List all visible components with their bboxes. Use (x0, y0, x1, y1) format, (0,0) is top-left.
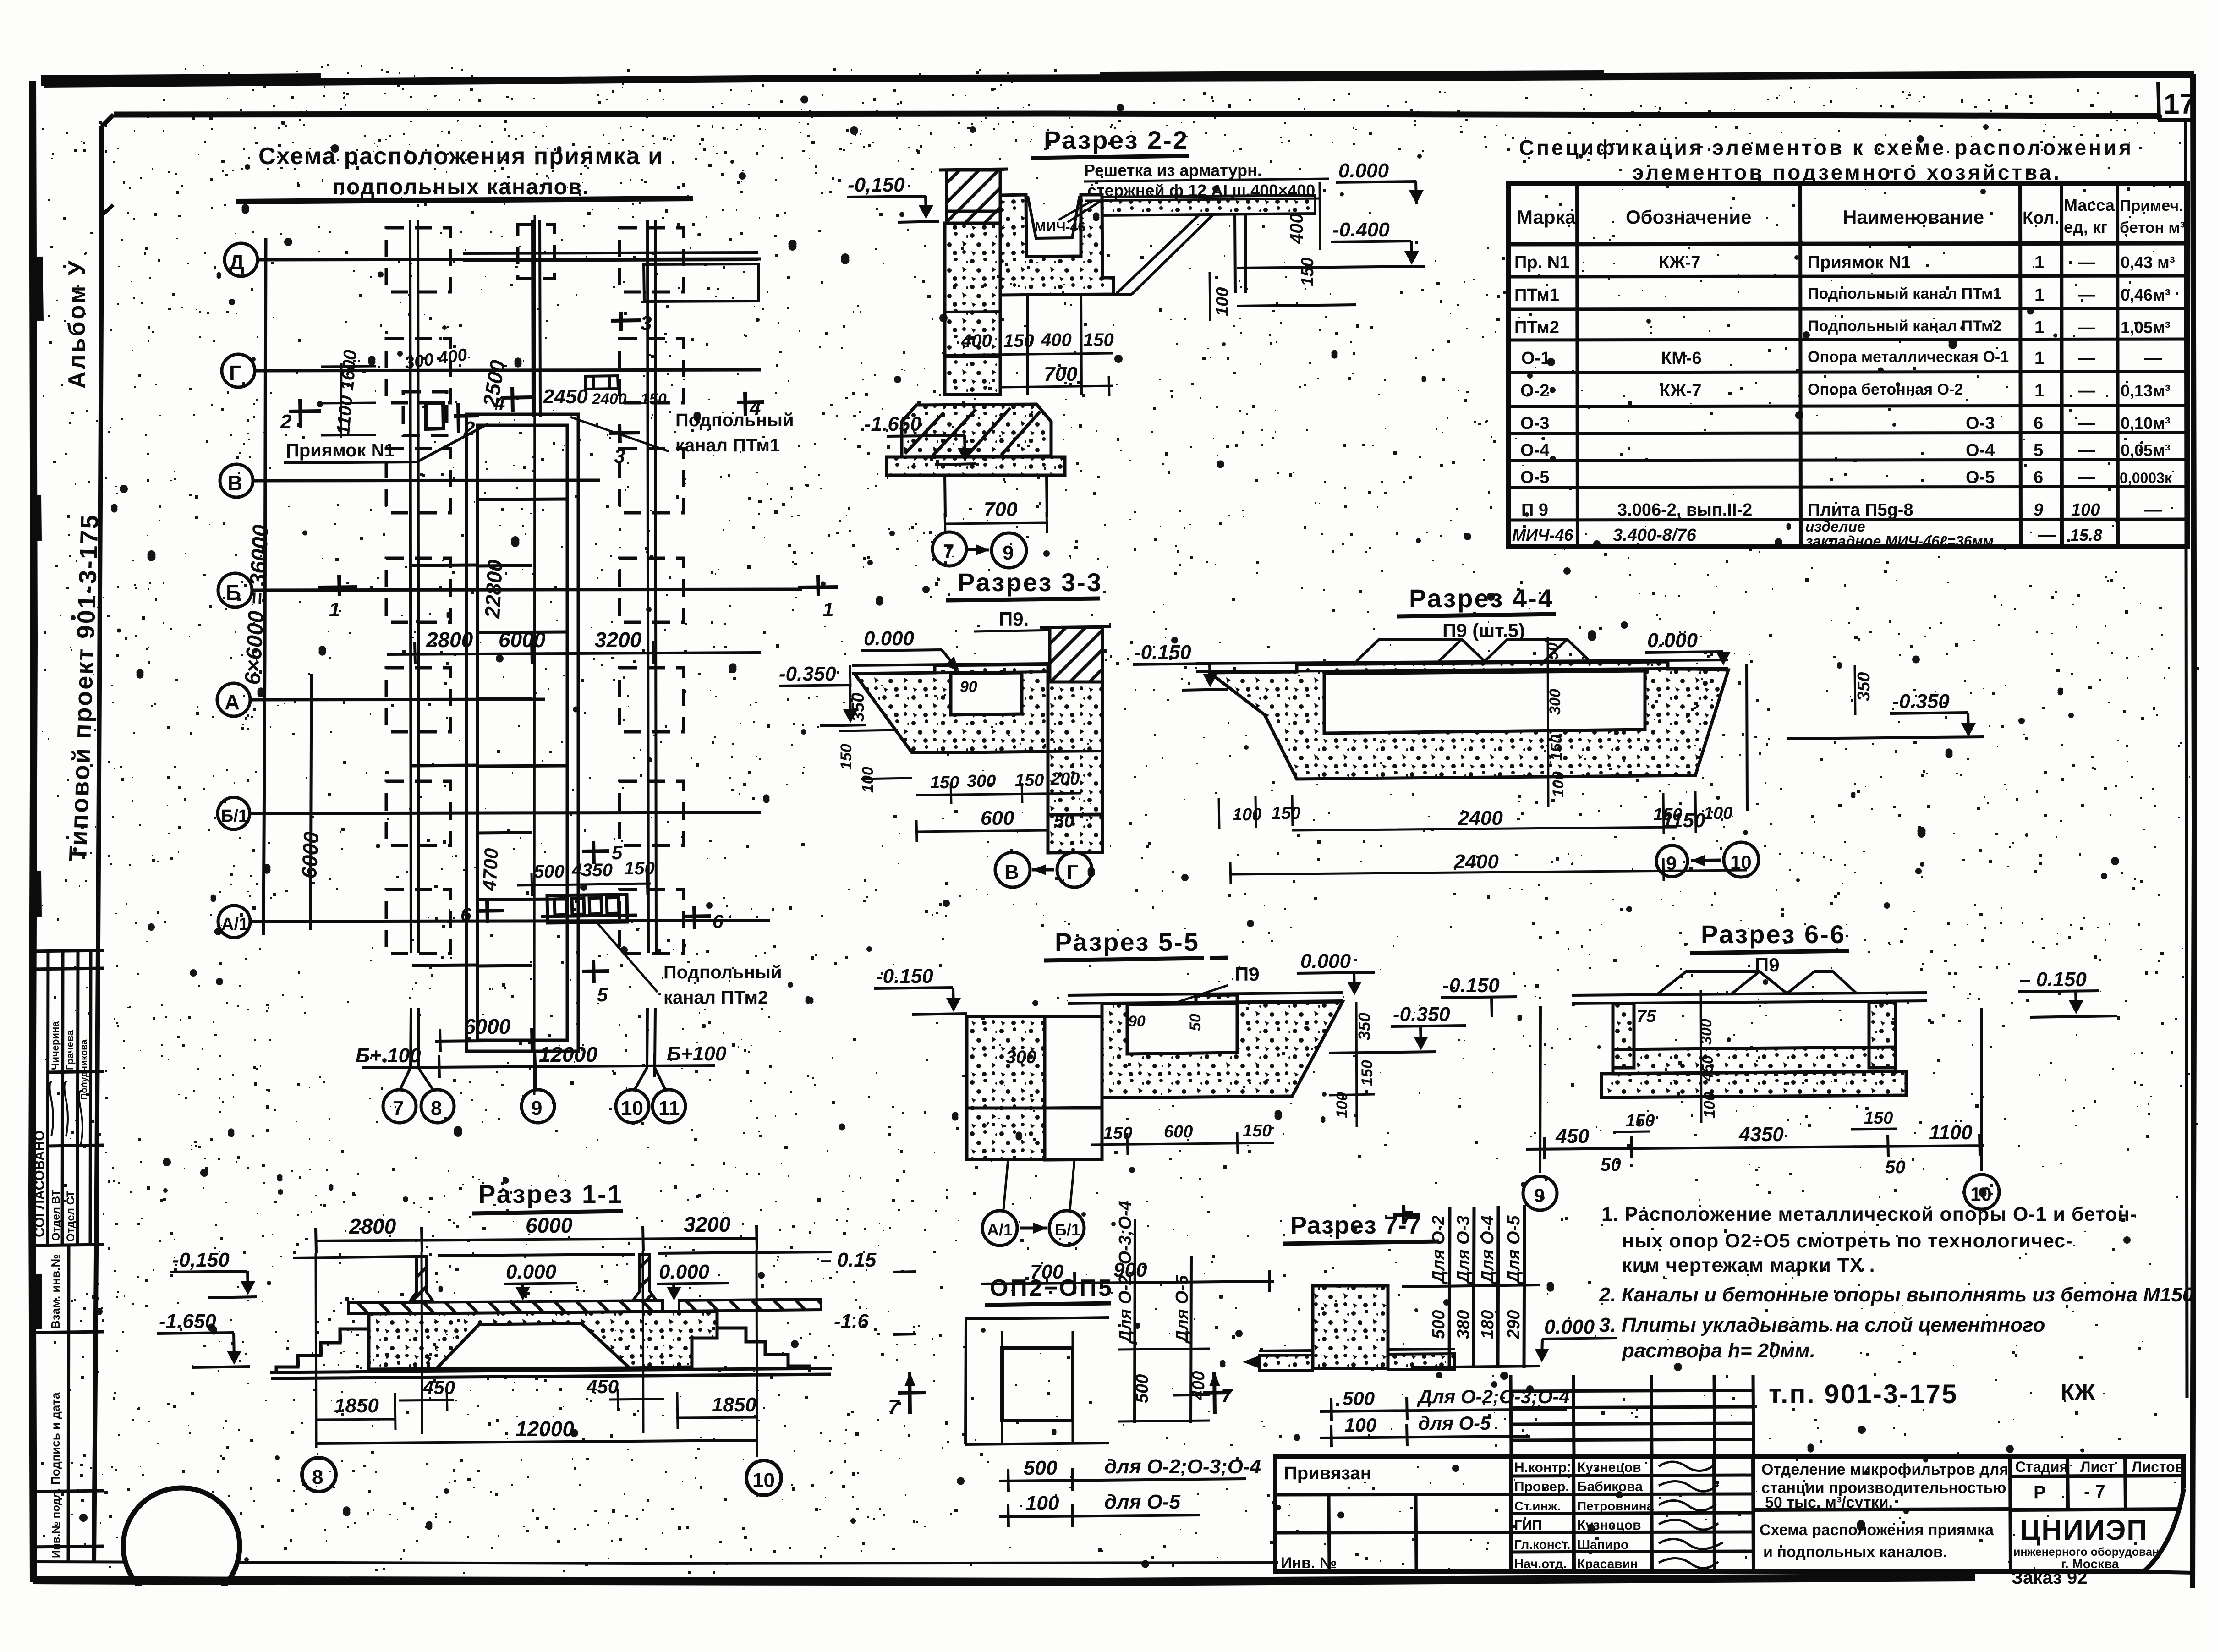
svg-text:—: — (2078, 468, 2095, 487)
svg-text:150: 150 (1015, 771, 1044, 790)
svg-text:—: — (2078, 441, 2095, 460)
svg-text:4350: 4350 (1738, 1123, 1784, 1146)
svg-text:0.000: 0.000 (1300, 950, 1351, 972)
svg-text:—: — (2078, 381, 2095, 401)
svg-text:6000: 6000 (464, 1015, 511, 1038)
svg-text:Подпольный: Подпольный (675, 410, 794, 430)
svg-text:150: 150 (930, 773, 959, 792)
grid ref circle 8 (302, 1458, 336, 1492)
svg-text:1100: 1100 (1929, 1121, 1973, 1144)
section mark 2 left (289, 399, 321, 428)
svg-text:180: 180 (1478, 1310, 1497, 1339)
svg-text:9: 9 (531, 1097, 542, 1120)
channel concrete U with left slope (855, 664, 1048, 752)
svg-text:90: 90 (960, 678, 977, 696)
svg-text:ед, кг: ед, кг (2064, 218, 2108, 236)
svg-text:500: 500 (1133, 1374, 1152, 1403)
svg-text:2400: 2400 (1453, 851, 1499, 873)
svg-text:-1.6: -1.6 (834, 1310, 869, 1333)
right vertical line (1747, 664, 1747, 811)
svg-text:6: 6 (2034, 468, 2043, 487)
svg-text:раствора h= 20мм.: раствора h= 20мм. (1622, 1339, 1815, 1362)
table grid (1508, 183, 2187, 547)
svg-text:-0.350: -0.350 (779, 663, 836, 685)
svg-text:1850: 1850 (334, 1394, 379, 1417)
stamp circle bottom left (123, 1488, 240, 1604)
svg-text:150: 150 (641, 390, 667, 408)
title underline (236, 198, 693, 202)
grid ref circle 10 (1964, 1175, 1999, 1209)
svg-text:150: 150 (1003, 331, 1034, 351)
svg-text:Решетка из арматурн.: Решетка из арматурн. (1084, 161, 1262, 180)
sidebar agreement table (30, 950, 104, 1562)
svg-text:100: 100 (2071, 500, 2100, 520)
svg-text:закладное МИЧ-46ℓ=36мм: закладное МИЧ-46ℓ=36мм (1805, 533, 1994, 549)
svg-text:150: 150 (838, 744, 855, 770)
svg-text:300: 300 (1006, 1047, 1036, 1067)
grid ref circle 10 (746, 1460, 781, 1495)
column at А left (386, 668, 450, 732)
svg-text:50: 50 (1885, 1157, 1906, 1177)
svg-text:-1.650: -1.650 (159, 1310, 216, 1333)
svg-text:7: 7 (888, 1396, 900, 1418)
grid ref circle Г (1057, 852, 1092, 887)
svg-text:Б/1: Б/1 (1055, 1220, 1080, 1239)
svg-text:1: 1 (329, 598, 340, 621)
svg-text:150: 150 (1359, 1060, 1376, 1086)
svg-text:10: 10 (752, 1469, 775, 1492)
svg-text:ОП2÷ОП5: ОП2÷ОП5 (990, 1275, 1113, 1301)
svg-text:изделие: изделие (1805, 518, 1865, 535)
svg-text:КЖ: КЖ (2061, 1379, 2096, 1405)
svg-text:Подпольный канал ПТм1: Подпольный канал ПТм1 (1808, 285, 2001, 302)
grid ref circle А/1 (982, 1211, 1017, 1246)
foundation base slab (887, 457, 1065, 475)
arrow between 9 and 10 (1691, 860, 1721, 861)
svg-text:8: 8 (431, 1097, 442, 1120)
bottom grid circle 11 (652, 1090, 685, 1123)
svg-text:т.п. 901-3-175: т.п. 901-3-175 (1769, 1379, 1958, 1409)
svg-text:7: 7 (1401, 1207, 1414, 1229)
grid circle Г (222, 354, 255, 387)
column at Б left (386, 558, 450, 622)
svg-text:О-5: О-5 (1520, 468, 1549, 487)
svg-text:3200: 3200 (595, 628, 642, 652)
arrow between 7 and 9 (968, 549, 989, 550)
page curl corner bottom right (2144, 1488, 2187, 1589)
channel concrete (1102, 995, 1343, 1098)
svg-text:О-3: О-3 (1966, 414, 1995, 433)
grid ref circle 9 (1656, 845, 1688, 877)
column at Д left (386, 228, 450, 292)
svg-text:О-1: О-1 (1521, 349, 1550, 368)
svg-text:50: 50 (1601, 1155, 1621, 1175)
svg-text:О-3: О-3 (1520, 414, 1549, 433)
grid circle В (220, 464, 253, 497)
main title block frame (1275, 1457, 2183, 1571)
svg-text:—: — (2078, 318, 2095, 337)
svg-text:0.000: 0.000 (864, 627, 915, 650)
svg-text:Подпольный канал ПТм2: Подпольный канал ПТм2 (1808, 318, 2001, 335)
column at Б/1 right (619, 781, 684, 845)
svg-text:450: 450 (1555, 1125, 1590, 1147)
dim line 6000 between Б/1 and А/1 (311, 674, 312, 930)
svg-text:Г: Г (1067, 861, 1078, 884)
tick line bottom (1411, 1366, 1540, 1367)
grid circle Б (218, 573, 252, 607)
svg-text:—: — (2144, 349, 2162, 368)
central tank outline (412, 215, 578, 1095)
svg-text:—: — (2078, 285, 2095, 305)
svg-text:Заказ 92: Заказ 92 (2012, 1568, 2088, 1588)
svg-text:П 9: П 9 (1521, 500, 1548, 520)
page number box lines (2158, 82, 2159, 120)
svg-text:Б: Б (226, 581, 241, 604)
arrow between В and Г (1032, 868, 1054, 872)
dim vertical lines for 7-7 (1449, 1205, 1524, 1368)
dim bracket bottom (965, 1443, 1109, 1444)
svg-text:7: 7 (943, 540, 954, 563)
signature squiggles (1659, 1462, 1723, 1568)
svg-text:-0.150: -0.150 (1442, 974, 1500, 997)
svg-text:Разрез 2-2: Разрез 2-2 (1044, 126, 1189, 154)
bottom grid circle 7 (383, 1090, 416, 1123)
svg-text:500: 500 (1343, 1388, 1375, 1409)
приямок N1 small rect (426, 403, 444, 429)
svg-text:6: 6 (2034, 414, 2043, 433)
svg-text:150: 150 (1864, 1109, 1893, 1128)
svg-text:9: 9 (1534, 1185, 1545, 1206)
svg-text:Инв. №: Инв. № (1281, 1554, 1337, 1572)
channel inner white (1127, 1004, 1237, 1054)
svg-text:22800: 22800 (480, 559, 507, 620)
svg-text:700: 700 (984, 498, 1018, 521)
svg-text:8: 8 (312, 1466, 323, 1488)
svg-text:Кол.: Кол. (2023, 209, 2059, 228)
svg-text:Гл.конст.: Гл.конст. (1514, 1537, 1570, 1552)
svg-text:0,05м³: 0,05м³ (2121, 441, 2171, 460)
section mark 7 right (1203, 1372, 1230, 1414)
grid axis line А/1 (250, 921, 770, 922)
floor slab left (1259, 1355, 1313, 1371)
slab top line (1068, 993, 1343, 1004)
svg-text:-0.150: -0.150 (1134, 641, 1191, 664)
svg-text:О-5: О-5 (1966, 468, 1995, 487)
svg-text:1. Расположение металличес: 1. Расположение металлической опоры О-1 … (1601, 1203, 2137, 1225)
section mark 4 right (737, 392, 764, 416)
svg-text:Приямок N1: Приямок N1 (1808, 253, 1911, 272)
svg-text:9: 9 (2034, 500, 2043, 520)
svg-text:МИЧ-46: МИЧ-46 (1512, 526, 1573, 544)
svg-text:—: — (2078, 414, 2095, 433)
svg-text:Лист: Лист (2080, 1459, 2115, 1475)
svg-text:1: 1 (2034, 285, 2044, 305)
column at В left (386, 449, 450, 513)
svg-text:ГИП: ГИП (1514, 1518, 1542, 1533)
svg-text:9: 9 (1003, 542, 1014, 564)
svg-text:2400: 2400 (592, 390, 627, 408)
svg-text:0,43 м³: 0,43 м³ (2121, 253, 2175, 272)
svg-text:Б+100: Б+100 (667, 1043, 727, 1065)
pit U concrete (1000, 195, 1113, 295)
svg-text:7: 7 (393, 1097, 404, 1120)
vertical dimension line 6x6000 (263, 238, 266, 935)
svg-text:Подпись и дата: Подпись и дата (49, 1392, 62, 1485)
svg-text:300: 300 (967, 772, 996, 791)
svg-text:400: 400 (961, 331, 992, 351)
top right small rectangle (644, 264, 759, 302)
svg-text:ким чертежам марки ТХ: ким чертежам марки ТХ . (1622, 1254, 1875, 1276)
svg-text:500: 500 (1429, 1310, 1448, 1339)
svg-text:– 0.150: – 0.150 (2019, 968, 2087, 991)
svg-text:6000: 6000 (499, 628, 546, 652)
svg-text:А: А (225, 690, 240, 714)
svg-text:элементов подземного хозя: элементов подземного хозяйства. (1632, 160, 2061, 184)
svg-text:для О-5: для О-5 (1104, 1491, 1181, 1513)
grid ref circle 9 (992, 533, 1026, 568)
svg-text:канал ПТм1: канал ПТм1 (675, 435, 780, 456)
svg-text:0.000: 0.000 (1544, 1316, 1595, 1338)
dim bracket left vertical (965, 1319, 966, 1444)
column at А/1 left (386, 889, 450, 954)
pit legs below (1027, 294, 1081, 395)
svg-text:—: — (2038, 526, 2056, 545)
svg-text:Плита П5g-8: Плита П5g-8 (1808, 500, 1913, 520)
channel inner white (1324, 671, 1645, 733)
svg-text:400: 400 (1189, 1371, 1208, 1400)
floor slab right (1388, 1354, 1455, 1370)
vertical line from pier to А/1 (1003, 1159, 1074, 1210)
section mark 6 left (477, 900, 504, 923)
bottom grid circle 9 (521, 1090, 554, 1123)
svg-text:0,46м³: 0,46м³ (2121, 285, 2171, 304)
svg-text:Стадия: Стадия (2015, 1459, 2068, 1475)
opora concrete block (1313, 1286, 1388, 1368)
svg-text:Б/1: Б/1 (221, 807, 248, 826)
svg-text:1,05м³: 1,05м³ (2121, 318, 2171, 337)
svg-text:Разрез 1-1: Разрез 1-1 (478, 1180, 623, 1208)
section mark 6 right (684, 906, 711, 929)
channel inner white (951, 673, 1022, 715)
bottom grid circle 10 (616, 1090, 649, 1123)
svg-text:4: 4 (493, 392, 505, 415)
svg-text:Взам. инв.№: Взам. инв.№ (49, 1254, 62, 1329)
long wall line through left columns (410, 220, 656, 953)
svg-text:П9.: П9. (999, 608, 1029, 630)
lower wall segment (1048, 814, 1102, 853)
svg-text:СОГЛАСОВАНО: СОГЛАСОВАНО (32, 1130, 47, 1237)
svg-text:0.000: 0.000 (506, 1261, 557, 1283)
svg-text:500: 500 (534, 862, 565, 882)
svg-text:7: 7 (1221, 1384, 1233, 1407)
П9 slab trapezoids (1658, 971, 1857, 993)
tank center line (534, 215, 535, 1095)
svg-text:Для О-2; О-3;О-4: Для О-2; О-3;О-4 (1116, 1201, 1135, 1344)
svg-text:-0.350: -0.350 (1892, 690, 1950, 713)
column grid verticals (316, 1250, 757, 1457)
svg-text:П9 (шт.5): П9 (шт.5) (1442, 620, 1525, 641)
small grid above main block (1511, 1375, 1754, 1571)
left pier concrete blocks (967, 1016, 1045, 1108)
svg-text:150: 150 (1626, 1111, 1655, 1131)
svg-text:Разрез 5-5: Разрез 5-5 (1055, 928, 1200, 956)
svg-text:- 7: - 7 (2084, 1482, 2105, 1502)
svg-text:17: 17 (2164, 88, 2195, 120)
svg-text:1150: 1150 (1662, 809, 1705, 832)
inner frame top-left corner bevel (102, 115, 114, 126)
svg-text:3200: 3200 (684, 1213, 731, 1236)
svg-text:150: 150 (1272, 804, 1300, 823)
grid axis line Д (258, 259, 761, 260)
svg-text:Н.контр.: Н.контр. (1514, 1460, 1570, 1475)
svg-text:МИЧ-46: МИЧ-46 (1035, 220, 1085, 235)
svg-text:КМ-6: КМ-6 (1661, 349, 1702, 368)
svg-text:КЖ-7: КЖ-7 (1659, 253, 1700, 272)
grid ref circle Б/1 (1049, 1211, 1084, 1246)
svg-text:Пр. N1: Пр. N1 (1514, 253, 1569, 272)
bottom border over stamp circle (33, 1580, 275, 1581)
svg-text:Марка: Марка (1517, 206, 1576, 228)
svg-text:О-4: О-4 (1966, 441, 1995, 460)
square extension lines (1002, 1331, 1073, 1443)
small box ФФ (585, 376, 618, 389)
svg-text:Схема расположения приямк: Схема расположения приямка и (258, 143, 663, 170)
svg-text:0.000: 0.000 (1338, 159, 1389, 182)
channel left wall (1613, 1004, 1634, 1068)
svg-text:Для О-5: Для О-5 (1504, 1215, 1524, 1284)
svg-text:-0.150: -0.150 (876, 965, 933, 988)
left stepped footing (276, 1314, 369, 1372)
hatched wall column (1050, 627, 1102, 682)
leader lines from plan to circles (400, 1008, 665, 1090)
svg-text:350: 350 (1355, 1013, 1374, 1040)
column at Г left (386, 339, 450, 403)
comb structure ПТм2 in plan (541, 895, 637, 923)
svg-text:Для О-5: Для О-5 (1173, 1275, 1192, 1344)
svg-text:1: 1 (2034, 253, 2044, 272)
svg-text:ных опор О2÷О5 смот: ных опор О2÷О5 смотреть по технологичес- (1622, 1230, 2073, 1252)
svg-text:100: 100 (1344, 1414, 1376, 1436)
section mark 3 bottom (609, 424, 640, 443)
wall column concrete below (945, 223, 1000, 395)
svg-text:канал ПТм2: канал ПТм2 (663, 988, 768, 1008)
right inner vertical line (2186, 120, 2187, 1398)
section mark 7 top left (1393, 1205, 1420, 1224)
fundament concrete mass (369, 1312, 717, 1369)
grid axis line Б/1 (250, 812, 761, 813)
svg-text:Опора металлическая О-1: Опора металлическая О-1 (1808, 348, 2009, 366)
svg-text:Опора бетонная О-2: Опора бетонная О-2 (1808, 381, 1963, 398)
svg-text:2450: 2450 (543, 385, 588, 408)
dim line top (316, 1225, 757, 1253)
column at Д right (619, 228, 684, 292)
svg-text:0.000: 0.000 (1647, 629, 1698, 652)
svg-text:100: 100 (1704, 804, 1732, 823)
svg-text:Альбом У: Альбом У (64, 259, 90, 389)
floor slab right of pit (1102, 195, 1315, 215)
top channel: horizontal double line at Д (463, 252, 758, 261)
column at Г right (619, 339, 684, 403)
svg-text:Красавин: Красавин (1577, 1557, 1638, 1571)
svg-text:Разрез 6-6: Разрез 6-6 (1701, 920, 1846, 949)
svg-text:3. Плиты укладывать на слой: 3. Плиты укладывать на слой цементного (1599, 1314, 2045, 1336)
hatched column left (410, 1257, 433, 1301)
mid dim line (387, 641, 761, 664)
svg-text:Бабикова: Бабикова (1577, 1479, 1643, 1494)
svg-text:Разрез 4-4: Разрез 4-4 (1409, 584, 1554, 613)
svg-text:450: 450 (586, 1376, 619, 1397)
svg-text:Приямок N1: Приямок N1 (286, 440, 395, 461)
svg-text:П9: П9 (1235, 963, 1260, 985)
vertical refs to circles (1540, 1006, 1982, 1173)
tank internal rungs (477, 499, 567, 499)
svg-text:0,13м³: 0,13м³ (2121, 381, 2171, 400)
wider base slab (1601, 1071, 1906, 1098)
svg-text:12000: 12000 (515, 1417, 574, 1441)
inner frame left vertical (99, 126, 104, 220)
svg-text:15.8: 15.8 (2070, 526, 2102, 544)
svg-text:-1.650: -1.650 (864, 413, 921, 435)
svg-text:Разрез 3-3: Разрез 3-3 (958, 568, 1102, 597)
svg-text:1: 1 (822, 598, 833, 621)
svg-text:Кузнецов: Кузнецов (1577, 1460, 1641, 1475)
svg-text:Отделение микрофильтров для: Отделение микрофильтров для (1761, 1461, 2008, 1478)
svg-text:100: 100 (1233, 805, 1261, 824)
svg-text:700: 700 (1044, 363, 1078, 385)
svg-text:2800: 2800 (426, 628, 473, 652)
svg-text:150: 150 (1083, 330, 1114, 350)
svg-text:ЦНИИЭП: ЦНИИЭП (2020, 1515, 2148, 1546)
svg-text:Г: Г (229, 361, 241, 385)
svg-text:11: 11 (658, 1097, 680, 1120)
grid ref circle 9 (1523, 1176, 1557, 1210)
svg-text:150: 150 (624, 858, 655, 878)
top slab line (852, 664, 1050, 674)
svg-text:0,10м³: 0,10м³ (2121, 414, 2171, 433)
top slab double line (1572, 993, 1927, 1004)
svg-text:10: 10 (621, 1097, 643, 1120)
section mark 3 top (611, 312, 641, 331)
right floor top edge (658, 1252, 832, 1253)
svg-text:4700: 4700 (478, 848, 502, 892)
svg-text:150: 150 (1548, 735, 1565, 761)
svg-text:400: 400 (1287, 213, 1307, 244)
svg-text:Наименование: Наименование (1843, 206, 1984, 228)
foundation trapezoid (902, 404, 1051, 457)
section mark 4 left (504, 387, 532, 412)
svg-text:2. Каналы и бетонные опоры вып: 2. Каналы и бетонные опоры выполнять из … (1599, 1284, 2194, 1306)
column at А/1 right (619, 889, 684, 954)
grid ref circle 7 (932, 532, 966, 566)
svg-text:Р: Р (2034, 1482, 2046, 1503)
svg-text:Нач.отд.: Нач.отд. (1514, 1557, 1567, 1571)
svg-text:и подпольных каналов.: и подпольных каналов. (1763, 1543, 1947, 1561)
bottom grid circle 8 (421, 1090, 454, 1123)
section mark 5 top (582, 841, 609, 864)
right stepped footing (717, 1328, 810, 1372)
svg-text:6: 6 (713, 911, 724, 932)
svg-text:150: 150 (1298, 258, 1317, 286)
svg-text:10: 10 (1970, 1183, 1992, 1205)
svg-text:Инв.№ подл.: Инв.№ подл. (50, 1488, 62, 1558)
svg-text:5: 5 (2034, 441, 2043, 460)
floor hatched band (349, 1301, 663, 1314)
vertical dim lines with labels (1135, 1219, 1191, 1423)
svg-text:5: 5 (597, 984, 608, 1005)
svg-text:100: 100 (1701, 1092, 1718, 1118)
grid ref circle 10 (1724, 842, 1759, 877)
grid circle А (217, 683, 250, 716)
